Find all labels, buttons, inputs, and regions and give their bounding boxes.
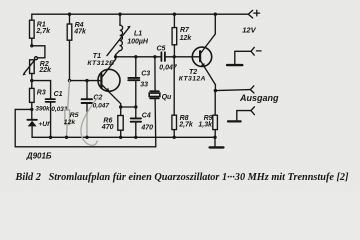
svg-text:C4: C4 [142,112,151,119]
svg-text:C1: C1 [54,91,63,98]
wire T1 base line [70,80,101,82]
svg-text:Bild 2 Stromlaufplan für ein: Bild 2 Stromlaufplan für einen Quarzoszi… [15,172,350,183]
capacitor C1 0,033 [46,91,68,138]
svg-text:12V: 12V [242,26,256,35]
junction R6/ground [119,136,122,139]
junction rail/T2 collector [214,13,217,16]
svg-text:R7: R7 [180,27,190,34]
wire emitter to C3/C4 node [121,106,136,108]
svg-text:12k: 12k [64,119,77,126]
wire collector line L1/C3/Qu to C5 [116,56,161,58]
junction C3 top [134,55,137,58]
junction rail/R4 [68,13,71,16]
resistor R8 2,7k [172,57,194,138]
svg-text:Qu: Qu [162,94,172,101]
wire ground rail [32,136,215,138]
connector output ground [228,107,254,122]
junction T1 emitter [119,105,122,108]
capacitor C5 0,047 [157,46,178,72]
svg-text:1,3k: 1,3k [198,121,213,128]
wire R2 wiper loop [32,46,45,58]
junction R1/R2/wiper [30,44,33,47]
junction Qu top [153,55,156,58]
svg-text:470: 470 [140,124,153,131]
wire junction to C1 [32,81,51,100]
svg-text:+Uf: +Uf [38,121,50,128]
junction rail/R7 [173,13,176,16]
transistor T1 KT312B [87,53,120,107]
junction R5/ground [65,136,68,139]
svg-text:КТ312А: КТ312А [179,76,206,83]
junction C2/ground [85,136,88,139]
svg-text:470: 470 [101,124,114,131]
svg-text:R5: R5 [70,112,79,119]
svg-text:КТ312Б: КТ312Б [87,60,114,67]
junction C1/ground [49,136,52,139]
junction T2 emitter/R9/output [214,89,217,92]
junction R9/ground [213,136,216,139]
resistor R7 12k [172,14,192,57]
wire output [215,90,250,91]
svg-text:33: 33 [140,82,148,89]
resistor R5 12k (faded) [64,81,79,138]
svg-text:0,047: 0,047 [93,102,110,109]
wire C5 to T2 base [165,56,200,58]
svg-text:12k: 12k [180,35,193,42]
junction R4/R5/base wire [68,79,71,82]
connector output [250,86,254,93]
junction C3/C4 [134,105,137,108]
svg-text:22k: 22k [38,67,52,74]
junction rail/L1 [118,13,121,16]
svg-text:Ausgang: Ausgang [239,93,279,103]
inductor L1 100uH [107,14,149,57]
resistor R6 470 [101,107,123,137]
potentiometer R2 22k [22,57,52,81]
svg-text:390k: 390k [35,105,50,112]
stray pen mark [81,97,98,145]
capacitor C4 470 [131,107,153,137]
junction base/C2 [85,79,88,82]
junction R3/diode/loop wire [30,108,33,111]
svg-text:2,7k: 2,7k [35,28,51,35]
svg-text:C3: C3 [141,70,150,77]
connector +12V [248,10,259,18]
svg-text:100µH: 100µH [127,38,149,45]
resistor R3 390k [30,81,51,113]
transistor T2 KT312A [179,14,216,90]
svg-text:L1: L1 [134,30,142,37]
svg-text:C5: C5 [157,46,166,53]
svg-text:Д901Б: Д901Б [26,151,52,160]
junction collector/L1 [114,55,117,58]
svg-text:0,047: 0,047 [159,64,178,71]
svg-text:R3: R3 [37,90,46,97]
junction R2/R3/C1 [30,79,33,82]
varicap diode D901B [27,109,37,137]
ground symbol below R9 [210,137,224,147]
svg-text:47k: 47k [73,29,87,36]
connector minus [227,47,261,65]
resistor R4 47k [67,14,87,80]
junction R8/ground [173,136,176,139]
resistor R1 2,7k [30,20,52,46]
resistor R9 1,3k [198,91,217,138]
svg-text:2,7k: 2,7k [178,121,194,128]
capacitor C3 33 [128,57,150,107]
wire loop R3-bottom to quartz bottom [15,109,156,146]
junction R7/R8/base [173,55,176,58]
wire +12V top rail [32,14,249,20]
quartz crystal Qu [149,57,172,147]
capacitor C2 0,047 [82,81,110,138]
junction C4/ground [134,136,137,139]
